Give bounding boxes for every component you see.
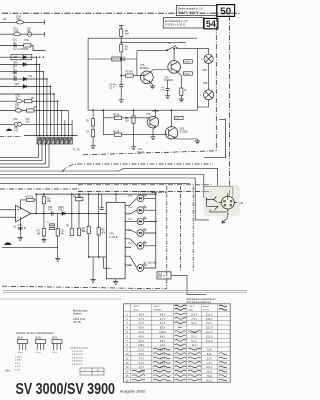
switch S1 xyxy=(166,43,177,51)
ground under R545 xyxy=(180,95,182,99)
svg-text:R5 5k6: R5 5k6 xyxy=(126,72,134,74)
svg-text:R5 120k: R5 120k xyxy=(73,196,82,198)
reference box to page 54 xyxy=(163,18,203,28)
svg-text:9-35 01 + 9-35 02: 9-35 01 + 9-35 02 xyxy=(165,23,186,27)
svg-text:1N41: 1N41 xyxy=(58,209,64,212)
wire y57 xyxy=(0,56,37,58)
T3 emitter ground xyxy=(153,127,155,137)
wire y86.5 xyxy=(0,86,51,88)
svg-text:4,8 V: 4,8 V xyxy=(160,336,166,338)
display module dashed stub top xyxy=(152,192,167,194)
terminal top xyxy=(119,25,123,29)
dark handwritten headers xyxy=(175,305,228,310)
LED common line xyxy=(137,192,156,268)
svg-text:Schnittmessstationen: Schnittmessstationen xyxy=(187,300,212,304)
lamp L1 xyxy=(201,54,213,63)
paper background xyxy=(0,0,247,400)
resistor R529 horizontal xyxy=(73,196,83,200)
wire bus8b xyxy=(64,120,66,135)
wire y64 xyxy=(0,63,40,65)
feedback wire xyxy=(20,200,36,210)
svg-text:Werte: Werte xyxy=(203,305,210,308)
svg-text:5,1 V: 5,1 V xyxy=(191,341,197,343)
column 4 values xyxy=(190,314,198,347)
node dots bottom rail xyxy=(88,256,100,258)
lamp L2 xyxy=(201,90,214,100)
half disc pot 2 xyxy=(4,242,12,245)
LED VD512 xyxy=(128,206,146,214)
svg-text:C51: C51 xyxy=(122,57,127,59)
base wire T1 xyxy=(121,75,144,77)
wire L1 xyxy=(0,144,39,157)
stacked caps C524/C525 xyxy=(46,222,55,230)
column 2 values xyxy=(159,314,166,369)
T2 collector up xyxy=(173,49,175,61)
wire bus4 xyxy=(46,79,48,136)
wire input 3 xyxy=(0,45,46,50)
pinout BC546 xyxy=(18,338,28,355)
wire opamp out vertical xyxy=(35,194,37,213)
column 5 values xyxy=(206,314,213,382)
svg-text:13,2 V: 13,2 V xyxy=(206,341,213,343)
display module dashed border right xyxy=(192,187,194,272)
svg-text:Bedienungsteil m. LP: Bedienungsteil m. LP xyxy=(178,6,203,10)
svg-text:1,3 V: 1,3 V xyxy=(160,345,166,347)
dash stub left of rail xyxy=(0,135,22,137)
svg-text:63B: 63B xyxy=(203,82,208,85)
svg-text:SC280C: SC280C xyxy=(164,79,173,82)
svg-text:5,1 V: 5,1 V xyxy=(139,350,145,352)
svg-text:Endstufenteil m. LP: Endstufenteil m. LP xyxy=(165,19,188,23)
svg-text:470u: 470u xyxy=(161,90,167,92)
svg-text:5,2 V: 5,2 V xyxy=(207,323,213,325)
capacitor C512 xyxy=(13,72,18,81)
transistor T2 xyxy=(164,61,180,82)
wire between lamps xyxy=(208,64,210,90)
handwritten squiggles lower rows xyxy=(132,331,227,381)
svg-text:A J11 B: A J11 B xyxy=(109,236,118,239)
bottom schematic border dash-dot y=287 xyxy=(2,286,167,289)
svg-text:1,5k: 1,5k xyxy=(14,30,19,33)
svg-text:SV3900: SV3900 xyxy=(154,309,163,311)
wire y59 xyxy=(88,58,137,60)
svg-text:5,1 V: 5,1 V xyxy=(191,336,197,338)
T2 emitter down xyxy=(177,72,181,88)
svg-text:Gn VLA 308: Gn VLA 308 xyxy=(144,262,158,265)
gray double rule xyxy=(3,290,247,292)
svg-text:4,7 V: 4,7 V xyxy=(139,367,145,369)
svg-text:7,5 V: 7,5 V xyxy=(191,319,197,321)
long wire to DIN 3 xyxy=(0,178,209,220)
svg-text:10u: 10u xyxy=(27,30,32,33)
long wire 4 xyxy=(0,183,190,185)
svg-text:7,3 V: 7,3 V xyxy=(207,363,213,365)
resistor R511 xyxy=(27,107,38,112)
stub from dash to corner xyxy=(219,119,226,121)
svg-text:5 0 0 0 0 0: 5 0 0 0 0 0 xyxy=(72,364,83,366)
gray wash xyxy=(204,185,240,216)
ground drop x93 xyxy=(92,257,94,280)
capacitor C523 on input xyxy=(13,217,22,237)
wire L4 xyxy=(0,144,49,167)
svg-text:Ansicht von der Leiterbahnseit: Ansicht von der Leiterbahnseite xyxy=(16,331,54,335)
svg-text:13,2 V: 13,2 V xyxy=(206,332,213,334)
label box above T4 xyxy=(174,116,183,120)
resistor R555 xyxy=(113,131,122,136)
page number box 54 xyxy=(204,18,218,29)
svg-text:1 G1 b: 1 G1 b xyxy=(15,357,22,359)
wire y94 xyxy=(0,93,54,95)
lamp branch wire xyxy=(197,49,208,55)
svg-text:5,1 V: 5,1 V xyxy=(191,323,197,325)
pinout BC550 xyxy=(36,338,46,355)
svg-text:C5 47u: C5 47u xyxy=(109,85,117,87)
op-amp IC501 xyxy=(16,205,32,230)
wire bus3 xyxy=(42,72,44,136)
electrolytic C533 xyxy=(161,80,170,92)
diode VD506 xyxy=(13,63,26,67)
label box R543 xyxy=(184,60,193,64)
resistor R554 xyxy=(113,114,122,119)
wire bus7 xyxy=(57,101,59,135)
svg-text:hinweis: hinweis xyxy=(73,313,82,316)
wire L bend xyxy=(103,257,110,268)
svg-text:4,77Ω: 4,77Ω xyxy=(203,309,209,311)
svg-text:71.30: 71.30 xyxy=(73,148,80,152)
resistor R552 xyxy=(86,109,95,145)
ground under C533 xyxy=(167,90,169,95)
wire y71.7 xyxy=(0,71,43,73)
relay box xyxy=(157,272,171,279)
svg-text:BC550C: BC550C xyxy=(140,67,149,70)
diode VD508 xyxy=(23,76,33,81)
svg-text:63B: 63B xyxy=(203,69,208,72)
wire y124 xyxy=(0,123,72,125)
base wire lower xyxy=(103,134,167,135)
lamp branch vertical xyxy=(196,49,198,111)
svg-text:0,8 V: 0,8 V xyxy=(139,341,145,343)
svg-text:521 B: 521 B xyxy=(138,152,144,154)
LED VD511 xyxy=(128,194,146,202)
svg-text:VD5: VD5 xyxy=(180,129,185,131)
capacitor C510 xyxy=(13,39,18,48)
svg-text:138 V: 138 V xyxy=(138,345,144,347)
svg-text:13,2 V: 13,2 V xyxy=(206,314,213,316)
svg-text:5 D 0: 5 D 0 xyxy=(15,369,21,371)
wire bus8a xyxy=(60,111,62,136)
resistor R545 xyxy=(180,88,188,95)
LED VD515 xyxy=(128,241,146,249)
resistor R551 xyxy=(125,109,135,146)
frame wire A left xyxy=(87,38,89,110)
svg-text:R543: R543 xyxy=(185,62,191,64)
svg-text:13,1 V: 13,1 V xyxy=(206,336,213,338)
transistor T1 xyxy=(140,64,153,84)
LED VD514 xyxy=(128,229,146,237)
capacitor C527 electrolytic xyxy=(97,194,104,210)
base wire upper xyxy=(103,117,149,119)
switch wire xyxy=(137,49,198,51)
LED VD516 xyxy=(128,264,146,272)
diode D520 xyxy=(58,206,65,215)
svg-text:4,7 V: 4,7 V xyxy=(139,358,145,360)
wire x103 xyxy=(102,110,104,135)
svg-text:4,85 V: 4,85 V xyxy=(159,332,166,334)
svg-text:9,1 V: 9,1 V xyxy=(207,380,213,382)
wire bus6 xyxy=(53,94,55,136)
capacitor C521 xyxy=(48,206,53,216)
ground under R553 xyxy=(91,146,96,149)
wire bus9 xyxy=(71,120,73,135)
svg-text:+50 V: +50 V xyxy=(133,306,139,308)
svg-text:b c e: b c e xyxy=(36,352,42,354)
svg-text:5,1 V: 5,1 V xyxy=(207,358,213,360)
module boundary dash-dot y=191.5 xyxy=(78,191,213,193)
capacitor C531 xyxy=(109,85,123,90)
node dots rail xyxy=(35,193,156,195)
long wire to DIN 1 xyxy=(0,168,233,197)
svg-text:54: 54 xyxy=(206,19,216,29)
right solid corner wire xyxy=(204,119,226,158)
resistor R541 xyxy=(120,29,130,36)
svg-text:47u: 47u xyxy=(48,209,53,212)
diode VD505 xyxy=(13,55,26,59)
connector pins row xyxy=(37,138,72,144)
capacitor C510b xyxy=(112,57,127,62)
T4 out wire xyxy=(174,138,197,141)
svg-text:8847: 8847 xyxy=(189,309,195,311)
frame wire A top xyxy=(88,37,197,39)
label box R544 xyxy=(184,72,193,76)
svg-text:m: m xyxy=(209,209,211,212)
ground under C531 xyxy=(120,86,122,99)
svg-text:3 S e: 3 S e xyxy=(15,363,21,365)
resistor R542 xyxy=(120,45,129,52)
svg-text:6,3V: 6,3V xyxy=(80,317,86,321)
svg-text:b c e: b c e xyxy=(18,352,24,354)
svg-text:504: 504 xyxy=(17,18,22,21)
T1 collector wire xyxy=(150,70,168,73)
chassis arrow xyxy=(222,218,228,223)
table headers xyxy=(133,305,210,311)
small LR table xyxy=(80,368,104,375)
svg-text:1 2 3 L S 6: 1 2 3 L S 6 xyxy=(72,351,83,353)
headphone jack symbol xyxy=(207,197,219,210)
svg-text:4,7 V: 4,7 V xyxy=(160,319,166,321)
wire opamp input + xyxy=(0,209,16,211)
svg-text:4,8 V: 4,8 V xyxy=(139,314,145,316)
long wire to DIN 2 xyxy=(0,175,204,198)
svg-text:160 V: 160 V xyxy=(206,319,212,321)
svg-text:R51: R51 xyxy=(25,39,30,42)
svg-text:Le LV 150/56: Le LV 150/56 xyxy=(13,47,29,51)
wire from relay box xyxy=(171,275,206,294)
T1 emitter to ground xyxy=(150,82,153,86)
page number box 50 xyxy=(217,5,235,18)
svg-text:R5 68: R5 68 xyxy=(113,131,120,133)
svg-text:4,8 V: 4,8 V xyxy=(139,336,145,338)
wire from pot2 xyxy=(2,247,58,249)
resistor R505 xyxy=(14,27,21,36)
row numbers xyxy=(126,314,129,382)
ground under R551 xyxy=(131,147,136,150)
svg-text:4,7 V: 4,7 V xyxy=(139,323,145,325)
resistor R527 xyxy=(66,194,73,236)
svg-text:5,3 V: 5,3 V xyxy=(139,354,145,356)
T3 collector xyxy=(154,110,156,118)
diode VD509 xyxy=(15,84,27,88)
svg-text:13,2 V: 13,2 V xyxy=(191,314,198,316)
resistor R553 xyxy=(86,129,95,136)
wire input 2 xyxy=(0,32,45,37)
svg-text:Quellenumschalter: Quellenumschalter xyxy=(70,347,89,350)
module boundary dash-dot horizontal y=152 xyxy=(83,151,216,155)
svg-text:9-41 05 + 9-12 04: 9-41 05 + 9-12 04 xyxy=(178,10,199,14)
svg-text:+15 V: +15 V xyxy=(189,306,195,308)
svg-text:3k9: 3k9 xyxy=(125,33,130,36)
transistor T3 xyxy=(146,111,160,128)
svg-text:R5 47k: R5 47k xyxy=(26,196,34,199)
svg-text:1,5 V: 1,5 V xyxy=(109,87,115,89)
svg-text:1,5V: 1,5V xyxy=(138,149,143,151)
svg-text:(LP M): (LP M) xyxy=(73,320,81,324)
wire bus8 xyxy=(68,111,70,136)
resistor R517 feedback xyxy=(26,196,35,202)
svg-text:13,21: 13,21 xyxy=(206,372,212,374)
svg-text:13,1 V: 13,1 V xyxy=(206,328,213,330)
svg-text:SC280C: SC280C xyxy=(180,131,189,133)
ground T4 xyxy=(195,141,200,144)
wire below DIN xyxy=(209,212,228,218)
handwritten squiggles col3 xyxy=(175,313,187,381)
svg-text:+50 V: +50 V xyxy=(154,306,160,308)
display module dashed border mid xyxy=(180,186,182,272)
table grid xyxy=(124,304,231,382)
module boundary dash-dot y=184.8 xyxy=(78,184,213,186)
capacitor C514 xyxy=(16,94,23,103)
svg-text:H: H xyxy=(164,275,166,278)
resistor R510 xyxy=(15,104,22,113)
ground below R525 xyxy=(57,248,59,259)
wire bus2 xyxy=(39,64,41,135)
svg-text:-5,4V: -5,4V xyxy=(206,350,212,352)
svg-text:5,1 V: 5,1 V xyxy=(139,363,145,365)
wire y79 xyxy=(0,78,47,80)
pinout BC640 xyxy=(52,338,62,355)
DIN socket xyxy=(219,193,237,212)
wire L3 xyxy=(0,144,46,164)
svg-text:6,5 V: 6,5 V xyxy=(160,328,166,330)
T4 collector up xyxy=(171,110,173,126)
capacitor C517 pair xyxy=(14,119,31,126)
capacitor C508 xyxy=(27,27,32,36)
wire bus5 xyxy=(50,87,52,136)
ground below R523 xyxy=(43,236,45,239)
display module dashed border left xyxy=(166,186,168,289)
svg-text:R544: R544 xyxy=(185,74,191,76)
switch corner wire xyxy=(136,51,138,76)
resistor R506 xyxy=(24,39,31,47)
node dot common xyxy=(155,221,157,223)
junction dots left bus xyxy=(36,57,59,102)
resistor R519 xyxy=(42,194,51,226)
svg-text:73,41: 73,41 xyxy=(206,376,212,378)
svg-text:L50x: L50x xyxy=(5,371,11,373)
svg-text:R5 68: R5 68 xyxy=(113,114,120,116)
svg-text:nB: nB xyxy=(240,201,243,205)
svg-text:13 V: 13 V xyxy=(192,345,197,347)
ground below C523 xyxy=(18,238,23,241)
wire bus1 xyxy=(36,57,38,135)
svg-text:2 G2 c: 2 G2 c xyxy=(15,360,22,362)
svg-text:VD5: VD5 xyxy=(15,84,20,86)
lamp loop bottom xyxy=(197,100,208,107)
transistor T4 xyxy=(165,127,188,139)
module boundary dash-dot y=189 left xyxy=(0,188,80,190)
bottom rail to IC xyxy=(89,256,107,258)
IC502 A277D xyxy=(106,202,125,278)
reference box to page 50 xyxy=(176,5,216,15)
wire L2 xyxy=(0,144,42,161)
svg-text:SV 3000/SV 3900: SV 3000/SV 3900 xyxy=(16,381,116,398)
svg-text:VT5: VT5 xyxy=(146,114,151,116)
IC top pin xyxy=(115,194,117,202)
svg-text:3 0 0 0 0 0: 3 0 0 0 0 0 xyxy=(72,357,83,359)
wire input 1 xyxy=(0,20,45,25)
top page border (dash-dot) xyxy=(2,12,241,14)
diode network box xyxy=(11,55,32,60)
main out wire y213.5 xyxy=(31,213,106,215)
column 1 values xyxy=(138,314,144,373)
wire y110.5 xyxy=(0,110,69,112)
resistor R525 xyxy=(56,214,65,248)
thin rule under xyxy=(0,298,121,300)
wire opamp input - xyxy=(0,216,16,218)
svg-text:13,1 V: 13,1 V xyxy=(206,367,213,369)
svg-text:4,7 V: 4,7 V xyxy=(139,319,145,321)
right page border dash-dot x=229 xyxy=(228,16,230,205)
potentiometer half disc xyxy=(6,129,13,131)
svg-text:N712: N712 xyxy=(133,309,139,311)
svg-text:4,7 V: 4,7 V xyxy=(160,323,166,325)
wire connector rail xyxy=(24,135,78,137)
base resistor R5 5k6 xyxy=(126,72,134,78)
svg-text:1N4: 1N4 xyxy=(28,76,33,78)
IC bottom pin to ground xyxy=(115,279,117,282)
resistor R509 xyxy=(25,98,35,103)
svg-text:BC546: BC546 xyxy=(152,111,160,113)
right module border dash-dot x=216 xyxy=(215,17,217,150)
svg-text:9,2V: 9,2V xyxy=(207,354,212,356)
svg-text:4,8 V: 4,8 V xyxy=(160,314,166,316)
resistor R531 xyxy=(97,194,106,257)
svg-text:0,8 V: 0,8 V xyxy=(160,341,166,343)
node dots out wire xyxy=(35,213,99,215)
LED VD513 xyxy=(128,217,146,225)
svg-text:4 0 0 0 0 0: 4 0 0 0 0 0 xyxy=(72,354,83,356)
IC pin wires to LEDs xyxy=(125,198,137,205)
wire x121 xyxy=(120,36,122,44)
resistor R523 xyxy=(37,226,46,237)
svg-text:2 0 0 0 0 0: 2 0 0 0 0 0 xyxy=(72,361,83,363)
svg-text:4 D 0: 4 D 0 xyxy=(15,366,21,368)
wire top rail to right xyxy=(121,41,186,43)
svg-text:50: 50 xyxy=(220,7,232,18)
module boundary dash-dot y=164 xyxy=(62,164,213,172)
svg-text:Ausgabe 10/82: Ausgabe 10/82 xyxy=(120,390,146,394)
svg-text:6,8 V: 6,8 V xyxy=(139,328,145,330)
svg-text:5,2 V: 5,2 V xyxy=(139,332,145,334)
